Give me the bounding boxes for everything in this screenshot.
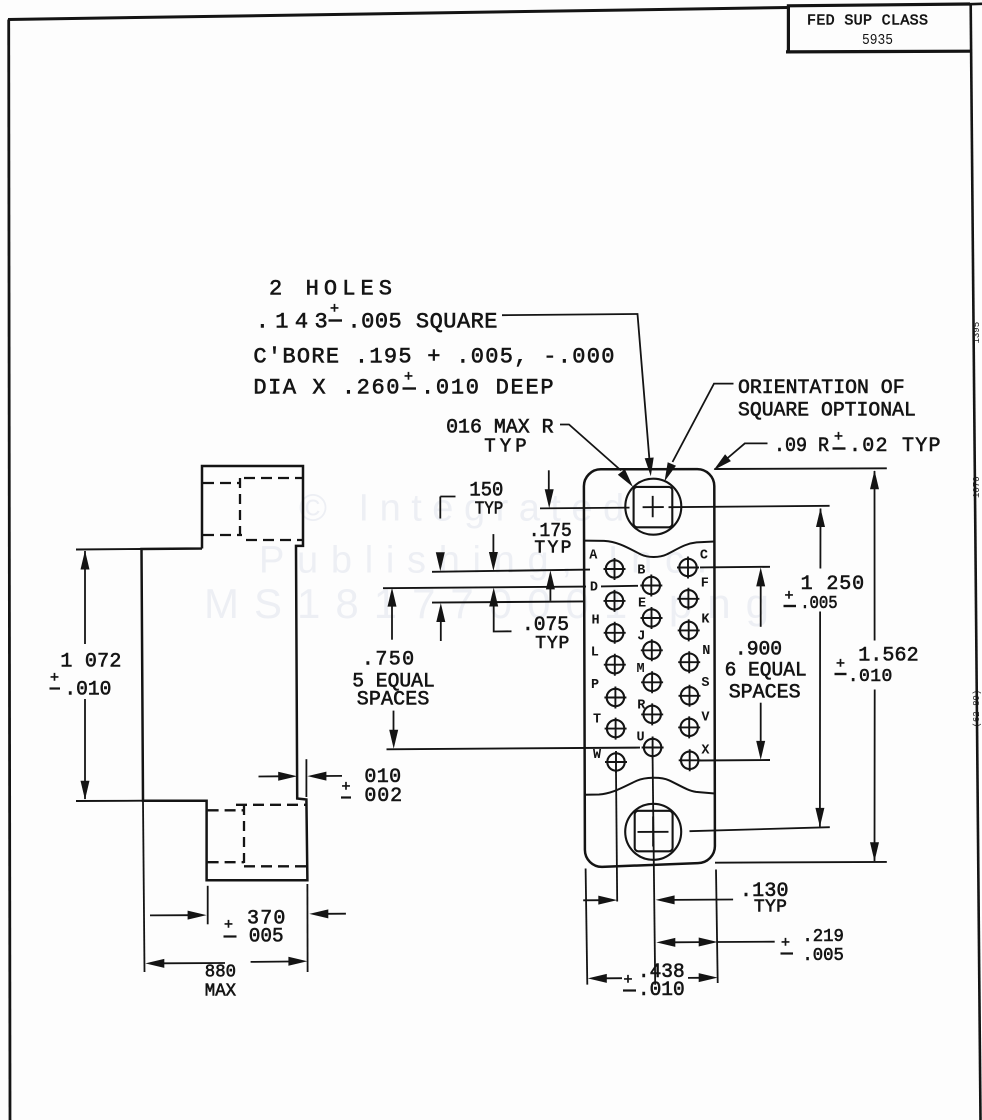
svg-text:SPACES: SPACES — [357, 689, 430, 712]
dim 219 plusminus — [781, 935, 794, 954]
dim 175 up arrow tail — [549, 588, 551, 600]
FRONT-VIEW — [540, 469, 830, 985]
svg-text:.010: .010 — [848, 667, 893, 687]
contact hole L — [604, 654, 626, 676]
svg-text:F: F — [701, 577, 709, 592]
contact hole H — [604, 622, 626, 644]
contact hole A — [604, 558, 626, 580]
dim 130 left stem — [583, 899, 600, 901]
dim 370 left extension — [207, 886, 209, 925]
svg-text:+: + — [330, 301, 339, 318]
svg-text:1 072: 1 072 — [60, 651, 121, 674]
svg-text:T: T — [593, 713, 601, 728]
HOLES — [604, 557, 701, 774]
svg-text:L: L — [591, 646, 599, 661]
hidden square bottom block: upper dashed right — [236, 804, 306, 806]
svg-text:+: + — [342, 779, 351, 796]
contact hole B — [640, 575, 662, 597]
note .143 plusminus — [329, 301, 343, 321]
hidden square top block: lower dashed right — [246, 539, 302, 541]
dim 750 upper tail — [391, 606, 393, 640]
note square leader — [502, 314, 649, 458]
dim 150 TYP down arrow — [436, 552, 445, 571]
svg-text:K: K — [701, 613, 710, 628]
dim 1072 top extension — [76, 548, 142, 551]
dim 370 left arrow — [188, 911, 207, 920]
dim 1072 line lower — [84, 699, 86, 799]
dim 1072 line upper — [84, 551, 86, 644]
dim 1072 plusminus — [50, 670, 61, 689]
top edge extension line — [714, 467, 887, 470]
right page border — [971, 4, 981, 1120]
svg-text:C: C — [700, 549, 708, 564]
dim 075 leader — [494, 606, 512, 632]
RIGHT-DIMS — [698, 468, 918, 862]
svg-text:.09 R: .09 R — [774, 435, 829, 458]
dim 219 right arrow — [699, 938, 718, 947]
svg-text:U: U — [637, 731, 645, 746]
dim 219 right stem — [718, 941, 775, 943]
svg-text:+: + — [785, 588, 794, 605]
contact hole W — [605, 751, 627, 773]
svg-text:+: + — [224, 917, 233, 934]
contact hole J — [641, 639, 663, 661]
svg-text:W: W — [593, 748, 602, 763]
bottom mounting hole circle — [625, 804, 681, 860]
note orientation leader — [673, 384, 734, 462]
row X extension right — [698, 759, 770, 762]
svg-text:.900: .900 — [735, 639, 782, 662]
title block box — [786, 4, 971, 52]
svg-text:TYP: TYP — [475, 500, 504, 520]
dim 010 right arrow stem — [325, 775, 342, 777]
dim 075 down arrow stem — [492, 534, 494, 553]
svg-text:.005: .005 — [800, 594, 838, 614]
note orientation leader arrow — [665, 462, 677, 481]
svg-text:+: + — [834, 429, 843, 446]
svg-text:880: 880 — [205, 963, 236, 983]
dim 010 extension line — [305, 759, 307, 797]
dim 1.562 down arrow — [870, 842, 879, 861]
svg-text:FED SUP CLASS: FED SUP CLASS — [807, 13, 928, 30]
left page border — [9, 20, 10, 1120]
svg-text:(62-89): (62-89) — [972, 690, 982, 728]
dim 750 lower stem — [393, 711, 395, 731]
contact hole P — [604, 687, 626, 709]
contact hole D — [604, 590, 626, 612]
svg-text:002: 002 — [364, 785, 402, 808]
dim 175 down arrow stem — [548, 470, 550, 490]
dim 219 mid line — [674, 941, 699, 943]
svg-text:2 HOLES: 2 HOLES — [269, 277, 392, 302]
svg-text:.010 DEEP: .010 DEEP — [421, 376, 554, 401]
hidden square bottom block: lower dashed left — [208, 861, 244, 863]
dim 900 lower tail — [760, 703, 762, 742]
hidden square top block: upper dashed right — [244, 477, 302, 479]
svg-text:SPACES: SPACES — [729, 682, 801, 705]
contact hole N — [678, 651, 700, 673]
dim 750 up arrow — [388, 588, 397, 607]
svg-text:N: N — [702, 644, 710, 659]
contact hole R — [641, 703, 663, 725]
svg-text:SQUARE OPTIONAL: SQUARE OPTIONAL — [738, 400, 916, 423]
dim 010 left arrow — [278, 772, 297, 781]
svg-text:TYP: TYP — [484, 436, 527, 458]
left edge extension down — [586, 869, 588, 985]
svg-text:C'BORE .195 + .005, -.000: C'BORE .195 + .005, -.000 — [253, 345, 614, 370]
contact hole X — [679, 749, 701, 771]
svg-text:.219: .219 — [802, 927, 844, 947]
dim 1.562 line — [874, 471, 876, 861]
dim 438 plusminus — [623, 972, 636, 991]
dim 370 right arrow — [309, 909, 328, 918]
contact hole S — [679, 685, 701, 707]
dim 1072 up arrow — [81, 551, 90, 570]
svg-text:.005: .005 — [802, 946, 844, 966]
TOP-NOTES — [253, 277, 940, 488]
svg-text:+: + — [624, 972, 633, 989]
dim 150 TYP leader tick — [440, 497, 455, 519]
svg-text:5935: 5935 — [862, 32, 893, 49]
top mounting cross — [643, 496, 664, 517]
top page border — [8, 8, 788, 20]
dim 1.250 line — [819, 509, 822, 827]
contact hole V — [678, 716, 700, 738]
dim 880 left arrow stem — [163, 962, 225, 964]
svg-text:005: 005 — [249, 926, 284, 949]
top centerline left — [540, 507, 630, 510]
center column extension line down — [653, 758, 656, 985]
svg-text:M: M — [637, 662, 645, 677]
dim 370 right extension — [306, 884, 308, 972]
dim 900 up arrow — [756, 567, 765, 586]
note DIA plusminus — [403, 369, 417, 389]
dim 010 left arrow stem — [259, 775, 280, 777]
dim 880 left arrow — [145, 959, 164, 968]
top border right stub — [970, 2, 982, 5]
contact hole T — [605, 718, 627, 740]
dim 1072 bottom extension — [76, 800, 143, 802]
svg-text:R: R — [637, 699, 646, 714]
note .09 plusminus — [833, 429, 846, 449]
hidden square bottom block: vertical dashed — [243, 805, 245, 866]
svg-text:1070: 1070 — [972, 476, 982, 498]
svg-text:MAX: MAX — [205, 982, 236, 1002]
dim 1.562 up arrow — [870, 470, 879, 489]
dim 130 left-pointing arrow — [656, 895, 675, 904]
dim 010 plusminus — [341, 779, 351, 798]
row B extension line — [383, 586, 638, 588]
contact hole F — [677, 588, 699, 610]
dim 370 right arrow stem — [327, 913, 346, 915]
svg-text:E: E — [638, 597, 646, 612]
contact hole U — [642, 737, 664, 759]
top mounting square — [634, 487, 673, 527]
right edge extension down — [716, 870, 718, 984]
dim 370 left arrow stem — [150, 914, 189, 916]
connector shell outline — [584, 469, 715, 867]
dim 075 down arrow — [489, 552, 498, 571]
dim 175 up arrow — [546, 570, 555, 589]
note 016 leader — [560, 425, 621, 471]
contact hole E — [641, 607, 663, 629]
dim 900 down arrow — [756, 741, 765, 760]
note square leader arrow — [645, 458, 654, 477]
hidden square top block: vertical dashed — [239, 478, 241, 540]
hidden square bottom block: upper dashed left — [208, 809, 244, 811]
note 016 leader arrow — [618, 469, 633, 487]
left column extension line down — [616, 772, 617, 902]
dim 880 right arrow stem — [251, 961, 290, 963]
dim 130 right-pointing arrow — [598, 896, 617, 905]
svg-text:H: H — [592, 613, 600, 628]
dim 150 TYP up arrow tail — [440, 621, 442, 641]
dim 438 left arrow — [588, 974, 607, 983]
svg-text:DIA X .260: DIA X .260 — [253, 376, 399, 401]
row D extension line — [432, 601, 584, 602]
insert outline top wave — [584, 541, 714, 557]
svg-text:1 250: 1 250 — [801, 573, 865, 596]
svg-text:+: + — [404, 369, 413, 386]
svg-text:+: + — [50, 670, 59, 687]
dim 1072 down arrow — [81, 781, 90, 800]
bottom mounting cross — [638, 817, 669, 847]
svg-text:A: A — [589, 549, 598, 564]
dim 370 plusminus — [224, 917, 237, 937]
dim 438 right arrow — [699, 973, 718, 982]
bottom edge extension line — [715, 861, 887, 864]
contact hole M — [641, 671, 663, 693]
svg-text:D: D — [590, 581, 598, 596]
dim 075 up arrow — [489, 588, 498, 607]
top centerline right — [669, 506, 830, 507]
svg-text:.750: .750 — [362, 649, 414, 672]
svg-text:+: + — [836, 656, 845, 673]
svg-text:ORIENTATION OF: ORIENTATION OF — [738, 377, 905, 400]
row C extension right — [700, 566, 770, 569]
dim 880 left extension — [143, 801, 145, 972]
svg-text:.010: .010 — [638, 979, 685, 1002]
note .09R leader arrow — [714, 454, 731, 470]
svg-text:1.562: 1.562 — [858, 645, 918, 668]
hidden square bottom block: lower dashed right — [244, 865, 306, 867]
svg-text:+: + — [781, 935, 790, 952]
svg-text:TYP: TYP — [534, 539, 571, 559]
dim 1.250 up arrow — [816, 508, 825, 527]
svg-text:.02 TYP: .02 TYP — [849, 435, 941, 458]
svg-text:TYP: TYP — [754, 898, 787, 918]
LETTERS — [589, 549, 710, 764]
BOTTOM-DIMS — [583, 869, 844, 1002]
dim 750 down arrow — [389, 730, 398, 749]
side view profile outline — [142, 466, 308, 880]
note .09R leader — [727, 443, 768, 459]
SIDE-VIEW — [142, 466, 308, 880]
svg-text:6 EQUAL: 6 EQUAL — [725, 660, 807, 683]
dim 010 right arrow — [307, 772, 326, 781]
hidden square top block: lower dashed left — [203, 534, 242, 536]
dim 880 right arrow — [288, 957, 307, 966]
LEFT-DIMS — [50, 470, 641, 1001]
row A extension line — [432, 570, 590, 572]
svg-text:.010: .010 — [64, 679, 111, 702]
contact hole K — [678, 619, 700, 641]
dim 175 down arrow — [545, 489, 554, 508]
bottom mounting square — [635, 811, 673, 852]
dim 438 right line — [688, 977, 700, 979]
dim 130 right stem — [674, 899, 734, 901]
svg-text:1395: 1395 — [972, 322, 982, 344]
dim 219 left arrow — [656, 938, 675, 947]
svg-text:V: V — [701, 711, 710, 726]
insert outline bottom wave — [585, 778, 715, 795]
dim 150 TYP up arrow — [436, 603, 445, 622]
contact hole C — [677, 557, 699, 579]
svg-text:P: P — [591, 678, 599, 693]
hidden square top block: upper dashed left — [203, 482, 240, 484]
svg-text:B: B — [637, 564, 645, 579]
svg-text:TYP: TYP — [535, 634, 569, 654]
dim 1.562 plusminus — [835, 656, 847, 674]
bottom centerline right — [690, 827, 830, 831]
dim 1.250 plusminus — [784, 588, 797, 606]
dim 438 left line — [606, 977, 622, 979]
svg-text:S: S — [701, 676, 709, 691]
dim 1.250 down arrow — [815, 808, 824, 827]
dim 900 upper tail — [760, 585, 762, 626]
svg-text:.005 SQUARE: .005 SQUARE — [348, 310, 498, 335]
WATERMARK — [204, 488, 784, 628]
svg-text:X: X — [701, 744, 710, 759]
svg-text:J: J — [637, 629, 645, 644]
row U extension line — [387, 748, 641, 750]
top mounting hole circle — [625, 479, 681, 535]
